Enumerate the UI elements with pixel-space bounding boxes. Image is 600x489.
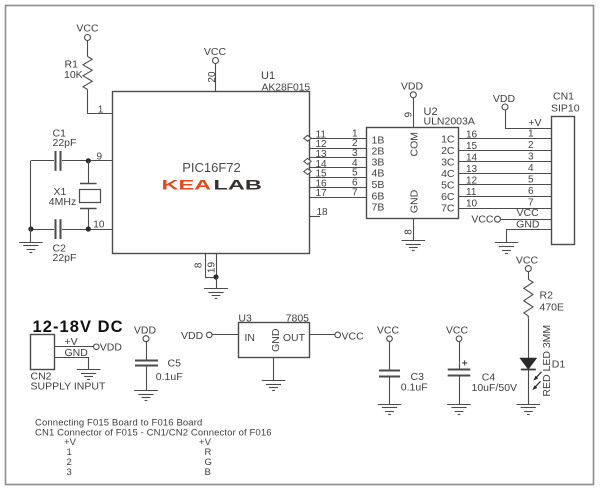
ground (crystal) [19,243,43,253]
wire R2 to D1 [528,318,530,358]
svg-text:VCC: VCC [377,325,400,337]
wire D1 to ground [528,370,530,404]
svg-text:15: 15 [466,141,478,152]
ground (CN2) [77,370,101,380]
KEALAB logo [162,177,262,193]
regulator U3 7805 body [238,313,309,358]
wire VDD to CN1 +V [506,110,552,129]
svg-text:U3: U3 [238,313,252,325]
wire PIC pin 12 [310,148,367,150]
svg-text:PIC16F72: PIC16F72 [182,160,241,175]
wire VDD to U2 pin 9 [413,98,415,127]
ground (C3) [378,405,402,415]
svg-text:9: 9 [97,152,103,163]
ground (D1) [517,405,541,415]
wire VCC to PIC pin 20 [215,64,217,92]
svg-text:COM: COM [408,132,420,157]
op-amp U1 PIC16F72 body [113,70,311,254]
svg-text:13: 13 [466,164,478,175]
svg-text:4B: 4B [372,168,385,180]
svg-text:10K: 10K [64,69,83,81]
svg-text:22pF: 22pF [53,252,77,264]
svg-text:CN1: CN1 [553,91,574,103]
svg-text:OUT: OUT [283,332,306,344]
svg-text:0.1uF: 0.1uF [401,382,428,394]
svg-text:8: 8 [404,229,415,235]
svg-text:GND: GND [270,328,282,352]
note text block [35,418,272,479]
capacitor C2 22pF [53,219,77,264]
wire U2 3C to CN1 pin3 [459,161,552,163]
svg-text:8: 8 [193,262,204,268]
svg-text:+V: +V [528,117,541,129]
ground (C4) [447,405,471,415]
node VCC (C3) [377,325,400,342]
node junction pins 8/19 [213,274,218,279]
svg-text:22pF: 22pF [53,137,77,149]
capacitor C4 10uF/50V [448,370,517,395]
wire PIC pin 18 stub [310,216,321,218]
svg-text:ULN2003A: ULN2003A [424,116,475,128]
wire VCC to C3 [389,342,391,371]
LED arrows [532,372,541,390]
crystal X1 4MHz [49,161,101,229]
svg-text:4C: 4C [441,168,455,180]
wire VCC to R1 [87,41,89,57]
svg-text:C5: C5 [168,358,182,370]
svg-text:6C: 6C [441,191,455,203]
svg-text:5C: 5C [441,180,455,192]
wire PIC pin 15 [310,177,367,179]
svg-text:7B: 7B [372,202,385,214]
svg-text:1B: 1B [372,134,385,146]
ground (U3) [262,381,286,391]
svg-text:SUPPLY INPUT: SUPPLY INPUT [31,381,106,393]
wire PIC pin 11 [310,138,367,140]
svg-text:5: 5 [528,175,534,186]
svg-text:GND: GND [408,189,420,213]
svg-text:VCC: VCC [471,214,494,226]
svg-text:0.1uF: 0.1uF [156,371,183,383]
wire PIC pin 8 stub [205,254,207,278]
wire U2 1C to CN1 pin1 [459,138,552,140]
wire PIC pin 19 stub [216,254,218,278]
svg-text:AK28F015: AK28F015 [262,83,311,94]
svg-text:6B: 6B [372,190,385,202]
wire VCC to C4 [459,342,461,369]
svg-text:B: B [205,467,211,478]
svg-text:7C: 7C [441,203,455,215]
svg-text:10uF/50V: 10uF/50V [472,382,518,394]
node VCC (C4) [446,325,469,342]
wire U2 2C to CN1 pin2 [459,150,552,152]
svg-text:KEA: KEA [162,177,212,193]
LED D1 [520,325,566,397]
ground (CN1) [495,243,519,254]
svg-text:3C: 3C [441,156,455,168]
wire VDD to U3 IN [212,334,238,336]
svg-text:14: 14 [466,153,478,164]
node VCC (U3 out) [335,330,364,342]
svg-text:R2: R2 [540,290,554,302]
svg-text:1: 1 [528,128,534,139]
svg-text:6: 6 [528,186,534,197]
wire C4 to ground [459,375,461,404]
wire VCC to CN1 [501,219,552,221]
wire U2 6C to CN1 pin6 [459,196,552,198]
node junction pin10/X1 [86,226,91,231]
node VCC (R1 top) [76,23,99,41]
wire C3 to ground [389,377,391,404]
wire CN2 +V to VDD [54,346,93,348]
capacitor C1 22pF [53,127,77,171]
svg-text:SIP10: SIP10 [551,103,580,115]
svg-text:VDD: VDD [100,342,123,354]
resistor R1 10K [64,57,92,90]
wire pin9 row [31,160,112,162]
node VDD (U3 in) [181,330,212,342]
node VDD (CN2) [94,342,123,354]
node junction pin9/X1 [86,158,91,163]
wire CN2 GND to ground [54,358,88,370]
wire CN1 GND row [507,230,552,243]
svg-text:RED LED 3MM: RED LED 3MM [541,325,553,397]
transistor-array U2 ULN2003A body [367,106,475,218]
capacitor C3 0.1uF [379,371,428,394]
wire U2 4C to CN1 pin4 [459,173,552,175]
wire PIC pin 17 [310,197,367,199]
node junction left/ground [28,226,33,231]
svg-text:IN: IN [245,332,256,344]
svg-text:1C: 1C [441,133,455,145]
svg-text:9: 9 [404,111,415,117]
svg-text:3: 3 [67,467,72,478]
node VCC (CN1) [471,214,500,226]
wire PIC pin 16 [310,187,367,189]
svg-text:470E: 470E [540,302,565,314]
svg-text:VDD: VDD [493,93,516,105]
svg-text:16: 16 [466,129,478,140]
svg-text:19: 19 [206,262,217,274]
ground (PIC pins 8/19) [204,289,228,299]
wire U2 7C to CN1 pin7 [459,208,552,210]
wire to ground [216,277,218,289]
svg-text:VDD: VDD [134,325,157,337]
wire U2 5C to CN1 pin5 [459,184,552,186]
svg-text:5B: 5B [372,179,385,191]
ground (C5) [134,391,158,401]
svg-text:7: 7 [352,187,358,198]
svg-text:3: 3 [528,152,534,163]
svg-text:D1: D1 [552,359,566,371]
wire PIC pin 14 [310,167,367,169]
svg-text:2C: 2C [441,145,455,157]
svg-text:VCC: VCC [446,325,469,337]
wire R1 to PIC pin 1 [88,90,113,114]
node VDD (C5) [134,325,157,342]
svg-text:VDD: VDD [401,81,424,93]
node VCC (PIC pin 20) [204,46,227,64]
svg-text:12: 12 [466,176,478,187]
node diamond pin11 [304,135,311,141]
connector CN1 SIP10 body [551,91,580,245]
svg-text:VCC: VCC [517,207,540,219]
svg-text:VDD: VDD [181,330,204,342]
svg-text:VCC: VCC [76,23,99,35]
svg-text:GND: GND [516,219,540,231]
svg-text:VCC: VCC [204,46,227,58]
svg-text:10: 10 [466,199,478,210]
svg-text:17: 17 [316,188,328,199]
svg-text:U1: U1 [261,70,275,82]
svg-text:VCC: VCC [342,330,365,342]
node VCC (R2 top) [516,255,539,272]
wire PIC pin 13 [310,157,367,159]
node diamond pin14 [304,169,311,175]
svg-text:LAB: LAB [214,177,262,193]
connector CN2 body [31,335,106,393]
resistor R2 470E [524,279,564,318]
wire left vertical C1/C2 [30,161,32,242]
svg-text:1: 1 [98,105,104,116]
capacitor C5 0.1uF [135,358,183,383]
wire pin8 to pin19 join [205,277,216,279]
wire VCC to R2 [528,272,530,280]
svg-text:20: 20 [207,71,218,83]
svg-text:4: 4 [528,163,534,174]
svg-text:10: 10 [93,220,105,231]
wire U3 OUT to VCC [309,334,335,336]
svg-text:12-18V DC: 12-18V DC [33,318,124,336]
wire U3 GND to ground [273,357,275,380]
svg-text:VCC: VCC [516,255,539,267]
svg-text:2: 2 [528,140,534,151]
wire U2 pin 8 to ground [413,219,415,241]
svg-text:+: + [462,359,468,370]
node diamond pin13 [304,158,311,164]
svg-text:7805: 7805 [286,313,310,325]
svg-text:18: 18 [317,207,329,218]
svg-text:11: 11 [466,187,477,198]
node VDD (CN1 +V) [493,93,516,110]
wire pin10 row [31,229,112,231]
ground (U2) [402,241,426,251]
node VDD (U2 COM) [401,81,424,98]
wire VDD to C5 [146,342,148,360]
wire C5 to ground [146,366,148,391]
svg-text:4MHz: 4MHz [49,196,76,208]
